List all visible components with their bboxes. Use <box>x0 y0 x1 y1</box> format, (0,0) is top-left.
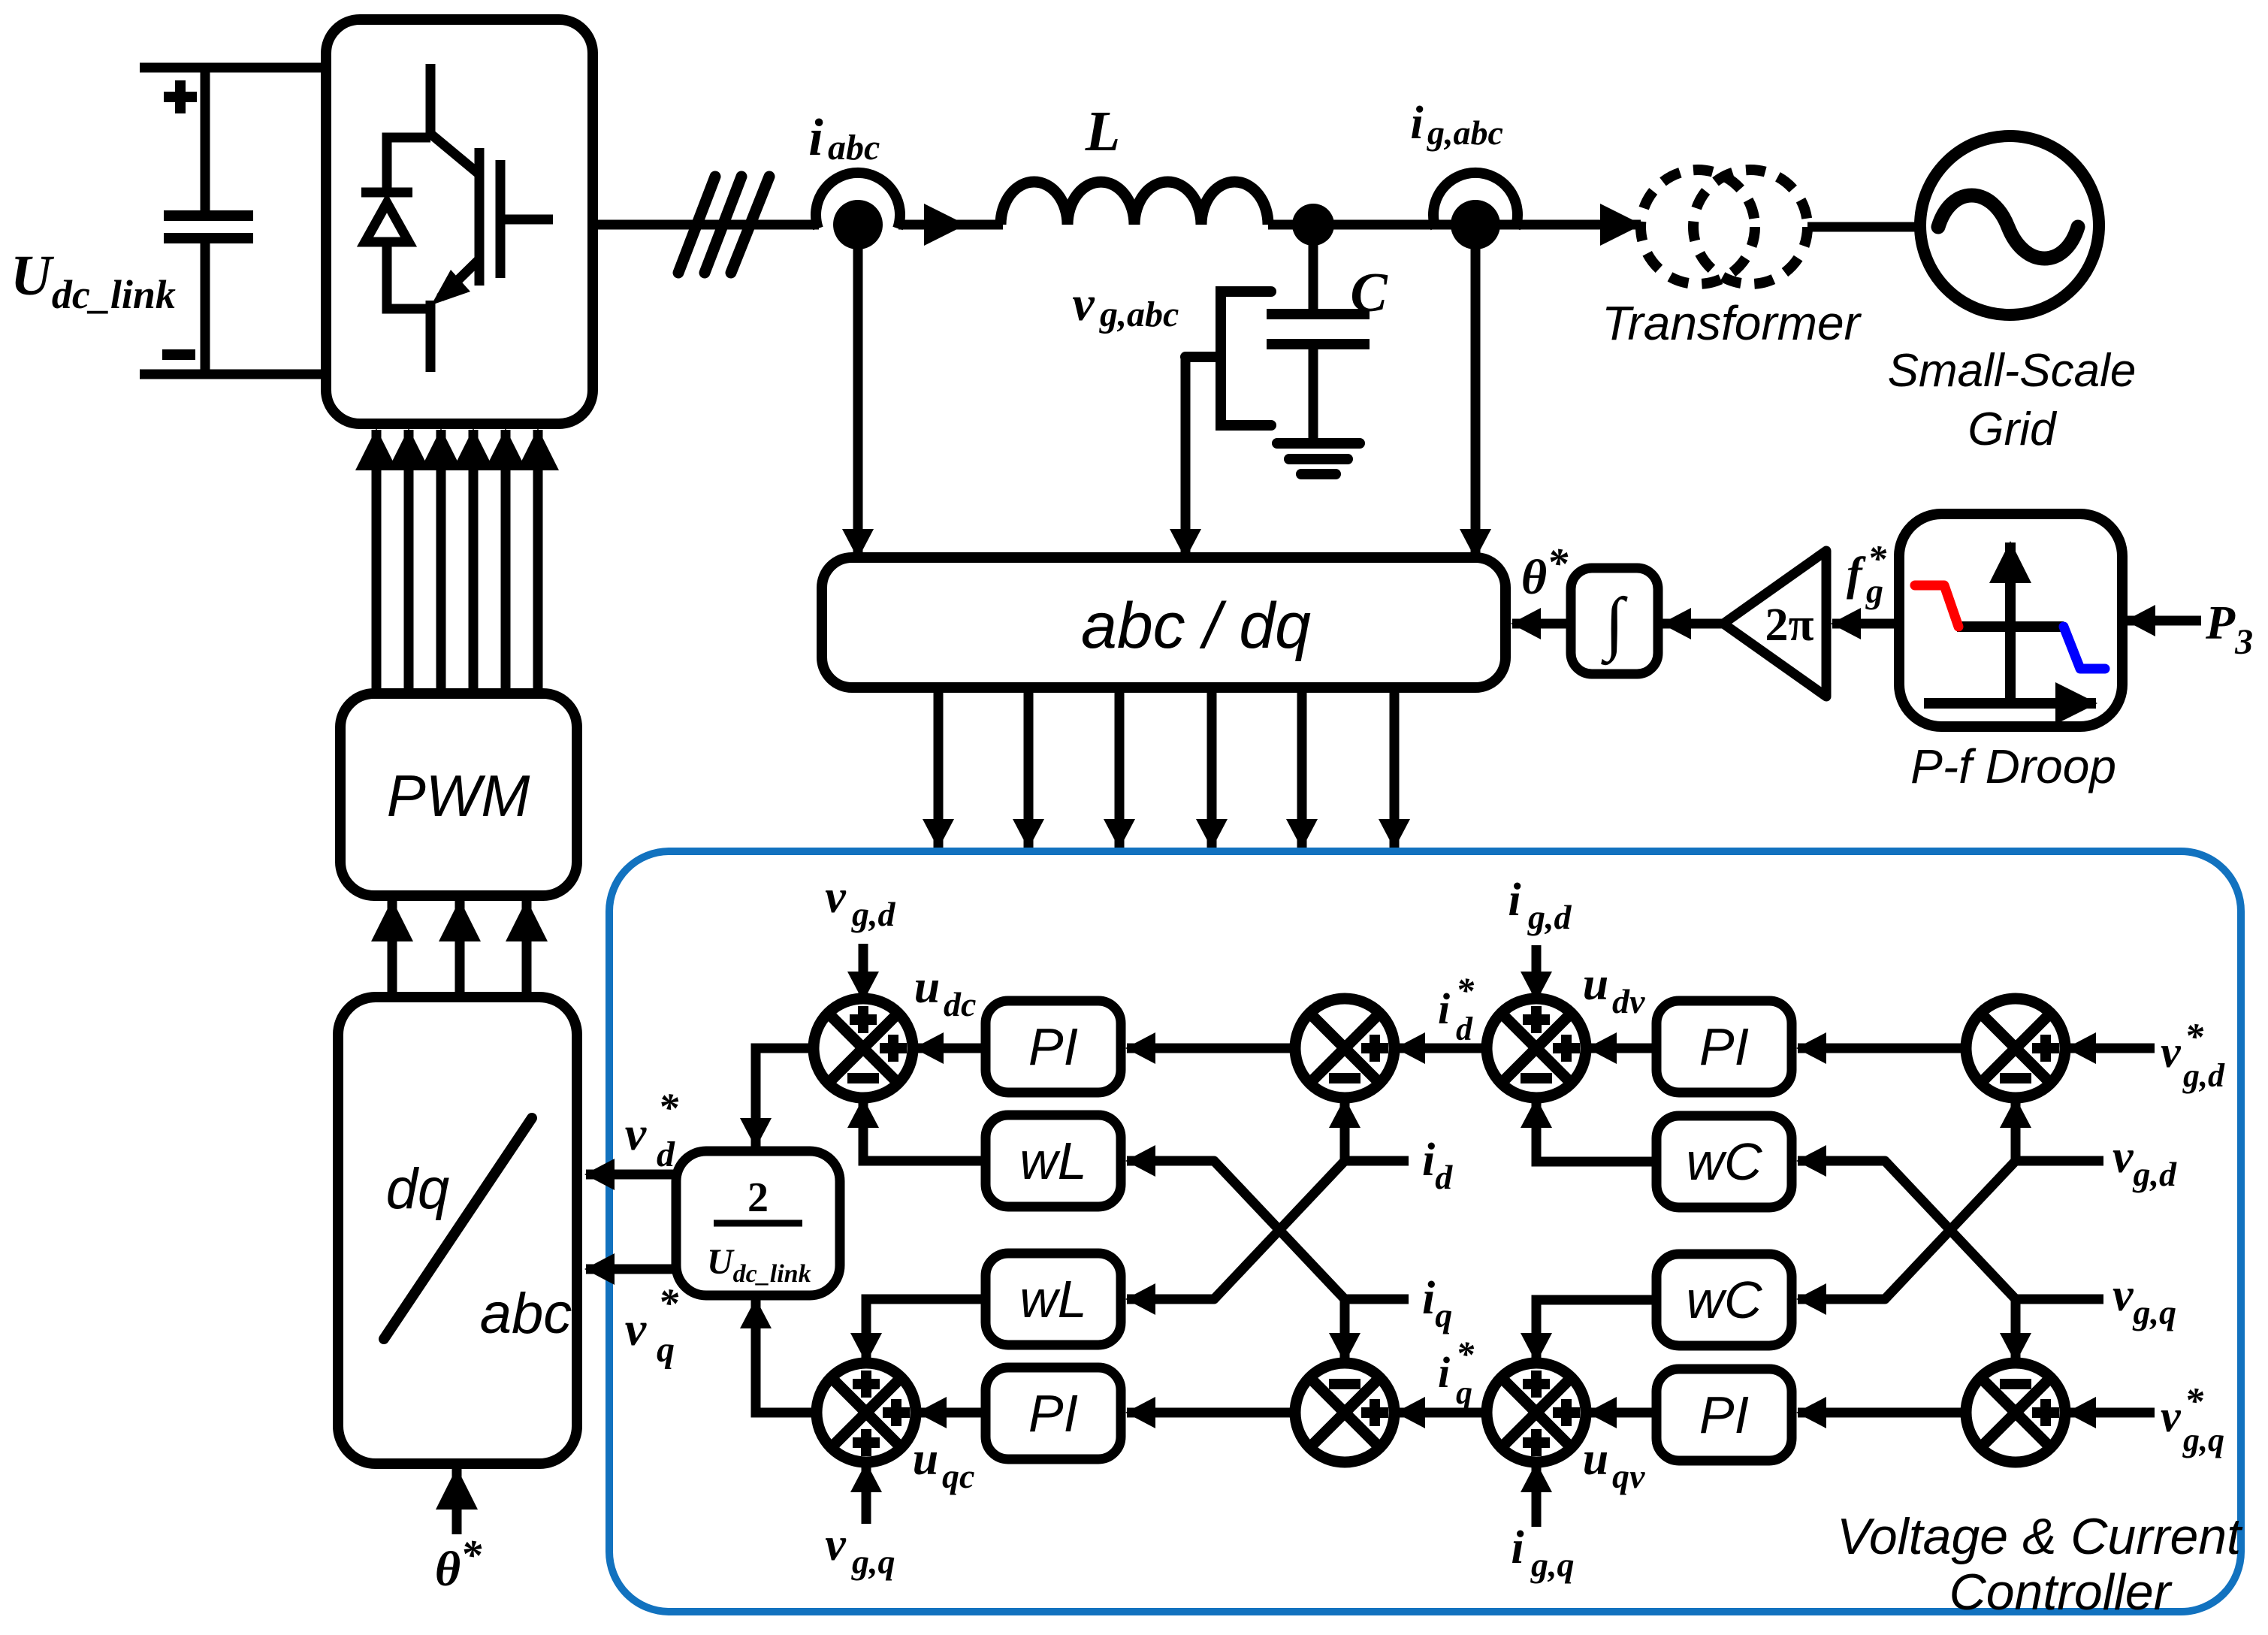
svg-text:wC: wC <box>1686 1132 1762 1191</box>
block PWM <box>340 694 577 896</box>
summing junction v_g,q ref <box>1966 1363 2065 1462</box>
integrator block <box>1571 568 1658 674</box>
summing junction u_dc <box>814 999 913 1098</box>
wire inverter output bus <box>593 220 819 230</box>
svg-text:u: u <box>913 1434 938 1485</box>
wire i_d cross to wL q <box>1127 1161 1345 1299</box>
wire PI to u_dv junction <box>1588 1044 1656 1053</box>
svg-text:g,abc: g,abc <box>1427 113 1503 152</box>
wire bus L to transformer <box>1268 220 1641 230</box>
svg-text:abc / dq: abc / dq <box>1081 590 1311 662</box>
wire modulation signal 2 dq/abc to PWM <box>455 901 465 997</box>
droop vertical axis <box>2005 542 2016 707</box>
droop blue curve <box>2064 627 2105 669</box>
wire v_g,q cross to wC d <box>1798 1161 2016 1299</box>
svg-text:*: * <box>658 1280 679 1325</box>
svg-text:v: v <box>2161 1027 2182 1077</box>
three-phase slash marks <box>678 177 769 273</box>
svg-text:v: v <box>825 1519 847 1570</box>
inverter U1 box <box>326 20 593 424</box>
wire i_q* junction to PI <box>1127 1408 1297 1418</box>
svg-text:v: v <box>625 1107 647 1160</box>
svg-text:qv: qv <box>1612 1457 1645 1495</box>
block PI q-axis voltage (PI) <box>1656 1369 1792 1461</box>
voltage probe v_g,abc bracket <box>1185 292 1271 425</box>
wire v_g,d* input <box>2067 1044 2155 1053</box>
wire i_q cross to wL d <box>1127 1161 1345 1299</box>
droop red curve <box>1915 585 1958 627</box>
wire v_d* to dq/abc <box>586 1170 676 1180</box>
svg-text:dq: dq <box>386 1157 450 1221</box>
wire i_g,abc to abc/dq <box>1471 249 1481 558</box>
wire gate signal 4 PWM to inverter <box>469 430 479 694</box>
svg-text:abc: abc <box>480 1282 572 1346</box>
wire gate signal 5 PWM to inverter <box>501 430 511 694</box>
wire v_g,abc to abc/dq <box>1181 357 1191 558</box>
svg-text:2π: 2π <box>1765 600 1814 651</box>
svg-text:g,q: g,q <box>851 1543 895 1581</box>
wire abc/dq output 5 to controller <box>1297 688 1307 848</box>
wire abc/dq output 2 to controller <box>1024 688 1034 848</box>
current sensor i_abc <box>816 173 900 228</box>
current sensor i_g,abc <box>1433 173 1518 228</box>
svg-text:u: u <box>1583 1434 1608 1485</box>
wire wL to u_qc junction <box>866 1299 986 1361</box>
wire u_dc junction to gain block <box>756 1048 815 1147</box>
capacitor C top plate <box>1267 309 1370 319</box>
svg-text:PI: PI <box>1699 1386 1749 1444</box>
wire u_qv junction to i_q* junction <box>1397 1408 1486 1418</box>
block PI d-axis current (PI) <box>986 1001 1121 1093</box>
wire bus arrow after i_abc <box>898 220 965 230</box>
droop horizontal axis <box>1924 698 2096 709</box>
svg-text:*: * <box>2185 1380 2204 1422</box>
svg-text:v: v <box>825 872 847 923</box>
svg-text:q: q <box>1456 1374 1472 1411</box>
wire v_g,q stub <box>2016 1295 2103 1304</box>
svg-text:PI: PI <box>1028 1384 1078 1443</box>
wire abc/dq output 6 to controller <box>1390 688 1400 848</box>
wire integrator to abc/dq <box>1512 619 1571 629</box>
ground <box>1277 443 1360 474</box>
svg-text:2: 2 <box>747 1174 769 1221</box>
wire bus to L <box>962 220 1003 230</box>
wire PI to u_qc junction <box>918 1408 986 1418</box>
wire modulation signal 3 dq/abc to PWM <box>522 901 532 997</box>
svg-text:g,d: g,d <box>2182 1057 2225 1094</box>
wire i_d* junction to PI <box>1127 1044 1297 1053</box>
wire 2pi to integrator <box>1662 619 1723 629</box>
wire v_g,d into u_dc junction <box>859 944 868 1000</box>
wire abc/dq output 4 to controller <box>1207 688 1217 848</box>
summing junction i_d* <box>1295 999 1394 1098</box>
gain block 2pi triangle <box>1723 551 1826 697</box>
block dq/abc <box>338 997 577 1464</box>
svg-text:qc: qc <box>942 1457 974 1495</box>
svg-text:g,d: g,d <box>851 895 896 933</box>
svg-text:v: v <box>1072 277 1095 331</box>
svg-text:Voltage & Current: Voltage & Current <box>1837 1508 2243 1565</box>
svg-text:g,q: g,q <box>2182 1422 2224 1458</box>
wire v_g,q* input <box>2067 1408 2155 1418</box>
block wL decoupling q (wL) <box>986 1253 1121 1345</box>
svg-text:*: * <box>2185 1015 2204 1057</box>
wire wL to u_dc junction <box>863 1099 986 1161</box>
svg-text:PI: PI <box>1699 1017 1749 1076</box>
svg-text:i: i <box>1438 1348 1450 1397</box>
minus polarity mark <box>162 349 195 360</box>
capacitor Cdc top plate <box>164 210 253 221</box>
block wL decoupling d (wL) <box>986 1115 1121 1207</box>
wire wC to u_qv junction <box>1536 1300 1656 1361</box>
block abc/dq <box>822 558 1505 688</box>
svg-text:i: i <box>1511 1522 1524 1573</box>
block PI q-axis current (PI) <box>986 1368 1121 1459</box>
svg-text:L: L <box>1085 100 1120 163</box>
svg-text:C: C <box>1350 262 1388 324</box>
wire droop to 2pi <box>1832 619 1899 629</box>
svg-text:∫: ∫ <box>1601 584 1628 666</box>
sine wave <box>1938 195 2078 258</box>
wire v_g,q down to ref junction <box>2011 1299 2021 1361</box>
node junction dot <box>1292 204 1334 246</box>
svg-text:wL: wL <box>1019 1270 1086 1328</box>
wire node to C <box>1309 225 1318 310</box>
svg-text:v: v <box>2161 1392 2182 1441</box>
svg-text:*: * <box>658 1085 679 1130</box>
wire v_g,d ref junction to PI <box>1798 1044 1965 1053</box>
svg-text:i: i <box>1410 98 1423 149</box>
wire v_q* to dq/abc <box>586 1265 676 1274</box>
wire dc+ rail <box>140 63 326 73</box>
svg-text:g,d: g,d <box>1527 898 1572 936</box>
wire v_g,d stub <box>2016 1156 2103 1166</box>
plus polarity mark <box>164 80 197 113</box>
block PI d-axis voltage (PI) <box>1656 1001 1792 1093</box>
svg-text:Small-Scale: Small-Scale <box>1888 345 2137 397</box>
wire u_dv junction to i_d* junction <box>1397 1044 1486 1053</box>
svg-text:v: v <box>625 1302 647 1355</box>
dq/abc diagonal <box>384 1118 532 1339</box>
svg-text:dv: dv <box>1612 982 1645 1020</box>
svg-text:abc: abc <box>828 128 880 168</box>
wire i_abc to abc/dq <box>853 249 863 558</box>
svg-text:u: u <box>1583 959 1608 1010</box>
inductor L <box>1001 182 1268 225</box>
summing junction v_g,d ref <box>1966 999 2065 1098</box>
wire v_g,q into u_qc junction <box>862 1464 871 1524</box>
capacitor C bottom plate <box>1267 339 1370 349</box>
wire i_q stub <box>1345 1295 1409 1304</box>
svg-text:Transformer: Transformer <box>1602 296 1862 350</box>
svg-text:*: * <box>1456 971 1475 1011</box>
summing junction u_dv <box>1487 999 1586 1098</box>
wire PI to u_qv junction <box>1588 1408 1656 1418</box>
svg-text:i: i <box>808 109 823 167</box>
wire modulation signal 1 dq/abc to PWM <box>388 901 397 997</box>
block P-f droop <box>1899 514 2122 727</box>
grid source circle <box>1920 136 2099 315</box>
svg-text:wL: wL <box>1019 1132 1086 1190</box>
svg-text:PI: PI <box>1028 1017 1078 1076</box>
Voltage & Current Controller boundary <box>609 851 2241 1612</box>
wire PI to u_dc junction <box>915 1044 986 1053</box>
wire gate signal 1 PWM to inverter <box>372 430 382 694</box>
inverter IGBT Q1 with diode D1 <box>361 64 553 372</box>
wire i_g,q into u_qv junction <box>1532 1464 1542 1527</box>
svg-text:PWM: PWM <box>387 763 530 829</box>
wire dc- rail <box>140 370 326 379</box>
wire C to ground <box>1309 349 1318 439</box>
wire v_g,q ref junction to PI <box>1798 1408 1965 1418</box>
svg-text:P-f Droop: P-f Droop <box>1910 739 2116 793</box>
svg-text:i: i <box>1438 984 1450 1033</box>
capacitor Cdc bottom plate <box>164 233 253 243</box>
block wC decoupling q (wC) <box>1656 1254 1792 1346</box>
gain block 2/U_dc_link <box>676 1151 840 1295</box>
wire i_g,d into u_dv junction <box>1532 945 1542 1000</box>
wire gate signal 2 PWM to inverter <box>404 430 414 694</box>
wire abc/dq output 3 to controller <box>1115 688 1125 848</box>
svg-text:d: d <box>657 1135 675 1174</box>
svg-text:g: g <box>1865 572 1883 610</box>
wire u_qc junction to gain block <box>756 1300 818 1413</box>
wire abc/dq output 1 to controller <box>934 688 944 848</box>
svg-text:d: d <box>1456 1011 1473 1047</box>
wire cap bottom lead <box>201 243 210 374</box>
wire wC to u_dv junction <box>1536 1099 1656 1162</box>
svg-text:g,abc: g,abc <box>1099 295 1179 334</box>
wire v_g,d up to ref junction <box>2011 1099 2021 1161</box>
droop mid line <box>1957 621 2064 632</box>
transformer <box>1641 170 1807 284</box>
wire i_d up to i_d* junction <box>1340 1099 1350 1161</box>
svg-text:g,q: g,q <box>1530 1546 1575 1584</box>
wire v_g,d cross to wC q <box>1798 1161 2016 1299</box>
svg-text:dc: dc <box>944 985 976 1023</box>
block wC decoupling d (wC) <box>1656 1116 1792 1207</box>
svg-text:Grid: Grid <box>1968 403 2058 455</box>
svg-text:i: i <box>1508 875 1521 926</box>
svg-text:u: u <box>914 962 940 1013</box>
wire gate signal 3 PWM to inverter <box>436 430 446 694</box>
wire transformer to grid <box>1807 222 1920 232</box>
wire gate signal 6 PWM to inverter <box>533 430 543 694</box>
svg-text:*: * <box>1456 1334 1475 1374</box>
wire theta* to dq/abc <box>452 1469 462 1534</box>
summing junction u_qv <box>1487 1363 1586 1462</box>
wire i_d stub <box>1345 1156 1409 1166</box>
svg-text:wC: wC <box>1686 1271 1762 1329</box>
wire cap top lead <box>201 68 210 211</box>
wire P3 to droop <box>2127 616 2201 626</box>
svg-text:Controller: Controller <box>1949 1564 2173 1621</box>
summing junction u_qc <box>817 1363 916 1462</box>
wire i_q down to i_q* junction <box>1340 1299 1350 1361</box>
svg-text:q: q <box>657 1330 675 1370</box>
summing junction i_q* <box>1295 1363 1394 1462</box>
